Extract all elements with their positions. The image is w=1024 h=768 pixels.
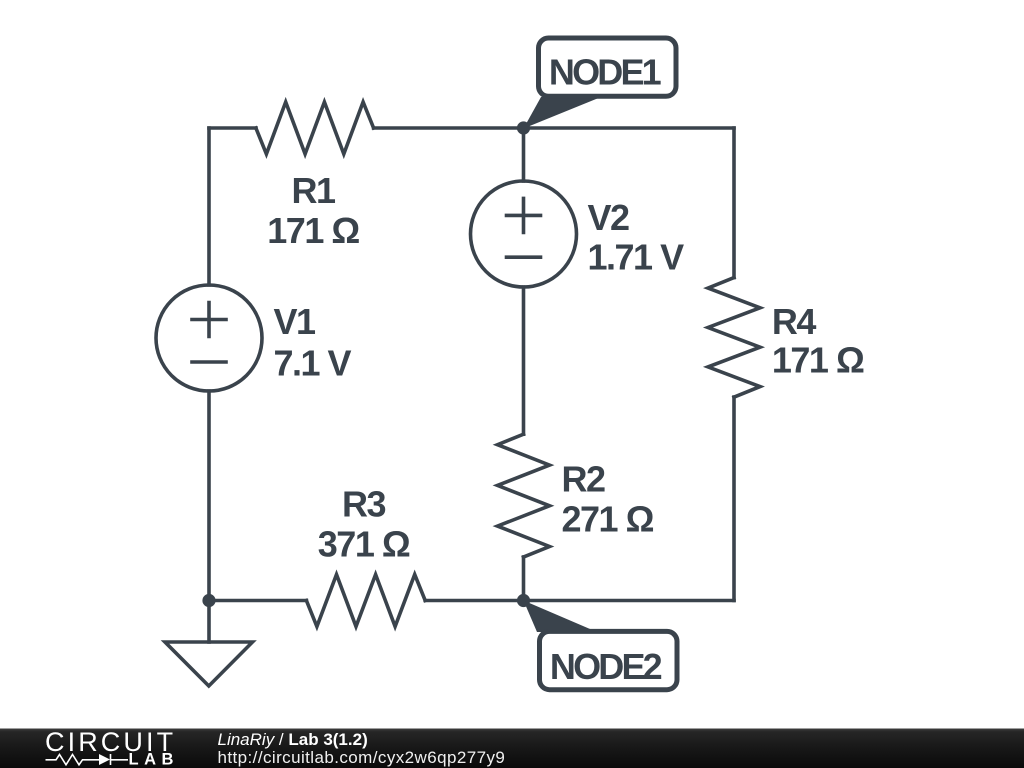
svg-text:171 Ω: 171 Ω <box>772 340 864 381</box>
svg-text:NODE1: NODE1 <box>549 52 662 93</box>
junction node NODE1 dot <box>517 121 530 134</box>
svg-text:http://circuitlab.com/cyx2w6qp: http://circuitlab.com/cyx2w6qp277y9 <box>218 748 506 767</box>
svg-text:V1: V1 <box>274 301 317 342</box>
svg-text:R3: R3 <box>342 484 385 525</box>
svg-text:R4: R4 <box>772 301 816 342</box>
junction node ground dot <box>202 594 215 607</box>
V1 minus sign <box>192 360 226 364</box>
resistor R1 body <box>256 102 374 154</box>
svg-text:V2: V2 <box>588 197 630 238</box>
V1 plus sign <box>192 303 226 337</box>
wire middle vertical (NODE1 to V2 top) <box>522 128 526 181</box>
resistor R2 body <box>498 434 550 557</box>
logo diode triangle <box>99 754 110 765</box>
svg-text:371 Ω: 371 Ω <box>318 523 410 564</box>
NODE2 callout pointer <box>524 601 598 633</box>
wire bottom rail middle segment (NODE2 to R3) <box>425 599 523 603</box>
svg-text:NODE2: NODE2 <box>550 646 662 687</box>
wire bottom rail right segment <box>524 599 735 603</box>
svg-text:LAB: LAB <box>129 751 179 768</box>
wire left vertical lower (V1 bottom down to bottom rail) <box>207 391 211 601</box>
wire right vertical upper (top corner to R4) <box>732 128 736 278</box>
voltage source V1 circle <box>156 285 262 391</box>
NODE1 callout box <box>539 38 677 96</box>
wire middle vertical (V2 bottom to R2 top) <box>522 287 526 434</box>
wire top rail left segment <box>209 126 256 130</box>
svg-text:1.71 V: 1.71 V <box>588 237 685 278</box>
resistor R3 body <box>306 575 425 627</box>
wire top rail right of R1 through NODE1 to right corner <box>374 126 734 130</box>
NODE2 callout box <box>540 631 678 689</box>
wire middle vertical (R2 bottom to NODE2) <box>522 557 526 601</box>
junction node NODE2 dot <box>517 594 530 607</box>
V2 plus sign <box>507 198 541 232</box>
svg-text:171 Ω: 171 Ω <box>267 210 359 251</box>
svg-text:LinaRiy / Lab 3(1.2): LinaRiy / Lab 3(1.2) <box>218 730 368 749</box>
svg-text:7.1 V: 7.1 V <box>274 343 352 384</box>
svg-text:R2: R2 <box>562 459 605 500</box>
resistor R4 body <box>708 278 760 398</box>
ground symbol <box>165 642 253 686</box>
V2 minus sign <box>507 255 541 259</box>
svg-text:R1: R1 <box>291 170 335 211</box>
NODE1 callout pointer <box>524 97 602 129</box>
svg-text:271 Ω: 271 Ω <box>562 498 654 539</box>
ground wire stub <box>207 601 211 643</box>
wire left vertical upper (top-left corner down to V1 top) <box>207 128 211 285</box>
wire bottom rail left segment (R3 to ground node) <box>209 599 306 603</box>
voltage source V2 circle <box>471 181 577 287</box>
logo resistor-diode squiggle <box>46 754 129 765</box>
wire right vertical lower (R4 to bottom rail) <box>732 397 736 600</box>
watermark bar <box>0 729 1024 768</box>
